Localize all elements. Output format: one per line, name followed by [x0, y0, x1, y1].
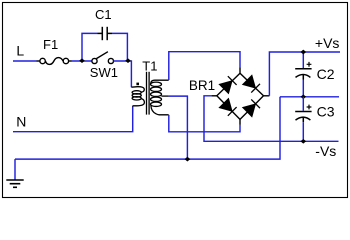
transformer T1 [131, 72, 168, 115]
svg-text:C2: C2 [317, 66, 335, 82]
svg-text:F1: F1 [43, 37, 58, 52]
svg-text:C1: C1 [95, 7, 112, 22]
capacitor C2 [295, 62, 311, 80]
wire center tap to ground rail [169, 96, 188, 159]
bridge rectifier BR1 [211, 68, 269, 125]
svg-text:N: N [16, 114, 26, 130]
svg-text:-Vs: -Vs [315, 143, 336, 159]
diamond [217, 73, 264, 119]
wire SW1 to node B [114, 61, 132, 87]
node A junction dot [79, 58, 85, 63]
wire C3 top lead [302, 97, 304, 111]
wire C1 branch left vertical [82, 33, 98, 61]
junction dot 0V/center-tap [185, 157, 191, 162]
svg-text:C3: C3 [317, 103, 335, 119]
wire fuse to node A [72, 60, 93, 62]
wire C1 right lead [112, 33, 127, 60]
svg-text:L: L [16, 43, 24, 59]
wire 0V rail [15, 97, 280, 159]
wire C3 bottom lead [302, 122, 304, 141]
diode D4 lower-right [243, 99, 260, 116]
primary top arc [131, 87, 144, 93]
wire N line [13, 106, 133, 131]
core lines [146, 72, 148, 115]
switch SW1 [92, 52, 114, 64]
secondary top arc [151, 80, 169, 83]
junction dot mid/C3 [300, 94, 306, 99]
capacitor C1 [98, 27, 113, 40]
junction dot -Vs/C3 [300, 139, 306, 144]
primary rings [132, 91, 141, 94]
svg-text:SW1: SW1 [90, 65, 118, 80]
top lead [239, 68, 241, 74]
svg-text:+Vs: +Vs [315, 35, 340, 51]
polarity dot [136, 83, 139, 86]
svg-text:BR1: BR1 [189, 78, 215, 93]
wire ground stem [14, 159, 16, 180]
bottom lead [239, 119, 241, 125]
diode D3 lower-left [220, 99, 237, 116]
secondary rings [151, 82, 162, 86]
junction dot +Vs/C2 [300, 50, 306, 55]
wire bridge plus to +Vs rail [269, 52, 340, 96]
secondary bottom arc [151, 106, 169, 115]
wire C2 top lead [302, 52, 304, 68]
wire secondary top to bridge [169, 52, 240, 80]
primary bottom arc [133, 99, 145, 107]
svg-text:T1: T1 [142, 58, 157, 73]
node B junction dot [125, 58, 131, 63]
wire L lead [13, 60, 37, 62]
ground [6, 180, 23, 187]
secondary center tap lead [161, 95, 168, 97]
wire C2 bottom lead [302, 80, 304, 97]
left lead [211, 95, 217, 97]
right lead [264, 95, 270, 97]
fuse F1 [37, 58, 72, 65]
wire bridge minus to -Vs rail [204, 96, 339, 142]
diode D1 upper-left [220, 76, 237, 93]
wire mid rail [280, 96, 339, 98]
diode D2 upper-right [243, 76, 260, 93]
wire secondary bottom to bridge bottom [169, 115, 240, 132]
capacitor C3 [295, 105, 311, 123]
